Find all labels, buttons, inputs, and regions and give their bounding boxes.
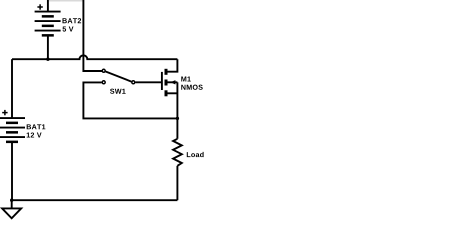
label M1 [181, 77, 191, 82]
wire top rail BAT1+ to drain, hop over vertical at x=84 [12, 55, 177, 59]
ground [2, 200, 21, 218]
wire BAT2 negative down to top rail [47, 35, 49, 59]
gate bar [161, 72, 163, 90]
body/source vertical [176, 82, 178, 139]
junction dot ground rail / BAT1- [10, 199, 13, 202]
wire load bottom to ground rail [176, 166, 178, 200]
label BAT2 [62, 18, 81, 23]
throw contact bottom [102, 81, 105, 84]
resistor Load [173, 139, 182, 166]
wire BAT2 positive up to top edge [47, 0, 49, 12]
wire gate-supply vertical (from cropped top rail) down to SW1 top throw [83, 0, 102, 71]
wire top rail (cropped at image top, faint remnant) [49, 0, 83, 2]
wire left drop to BAT1 [11, 59, 13, 118]
channel segment body [165, 80, 168, 86]
label 5 V [63, 27, 74, 32]
transistor M1 NMOS [162, 59, 178, 139]
switch SW1 [83, 69, 177, 118]
plus sign BAT1 [2, 110, 7, 115]
wire BAT1 negative down to ground rail [11, 142, 13, 200]
label NMOS [181, 85, 202, 90]
junction dot source node / SW1 branch [176, 117, 179, 120]
drain stub [168, 59, 178, 71]
lever arm [106, 72, 132, 82]
plus sign BAT2 [37, 4, 42, 9]
channel segment source [165, 90, 168, 96]
label Load [187, 152, 204, 157]
source stub [168, 92, 178, 94]
battery BAT1 [0, 118, 25, 142]
pole contact [132, 81, 135, 84]
wire pole to gate [136, 81, 162, 83]
wire SW1 bottom throw left + down + across to source node [83, 82, 177, 118]
body stub with arrow [168, 81, 178, 83]
junction dot BAT2- / top rail [46, 58, 49, 61]
channel segment drain [165, 69, 168, 75]
throw contact top [102, 69, 105, 72]
label 12 V [27, 132, 42, 137]
wire ground rail [12, 199, 178, 201]
label BAT1 [27, 124, 46, 129]
battery BAT2 [35, 12, 61, 36]
label SW1 [110, 89, 126, 94]
